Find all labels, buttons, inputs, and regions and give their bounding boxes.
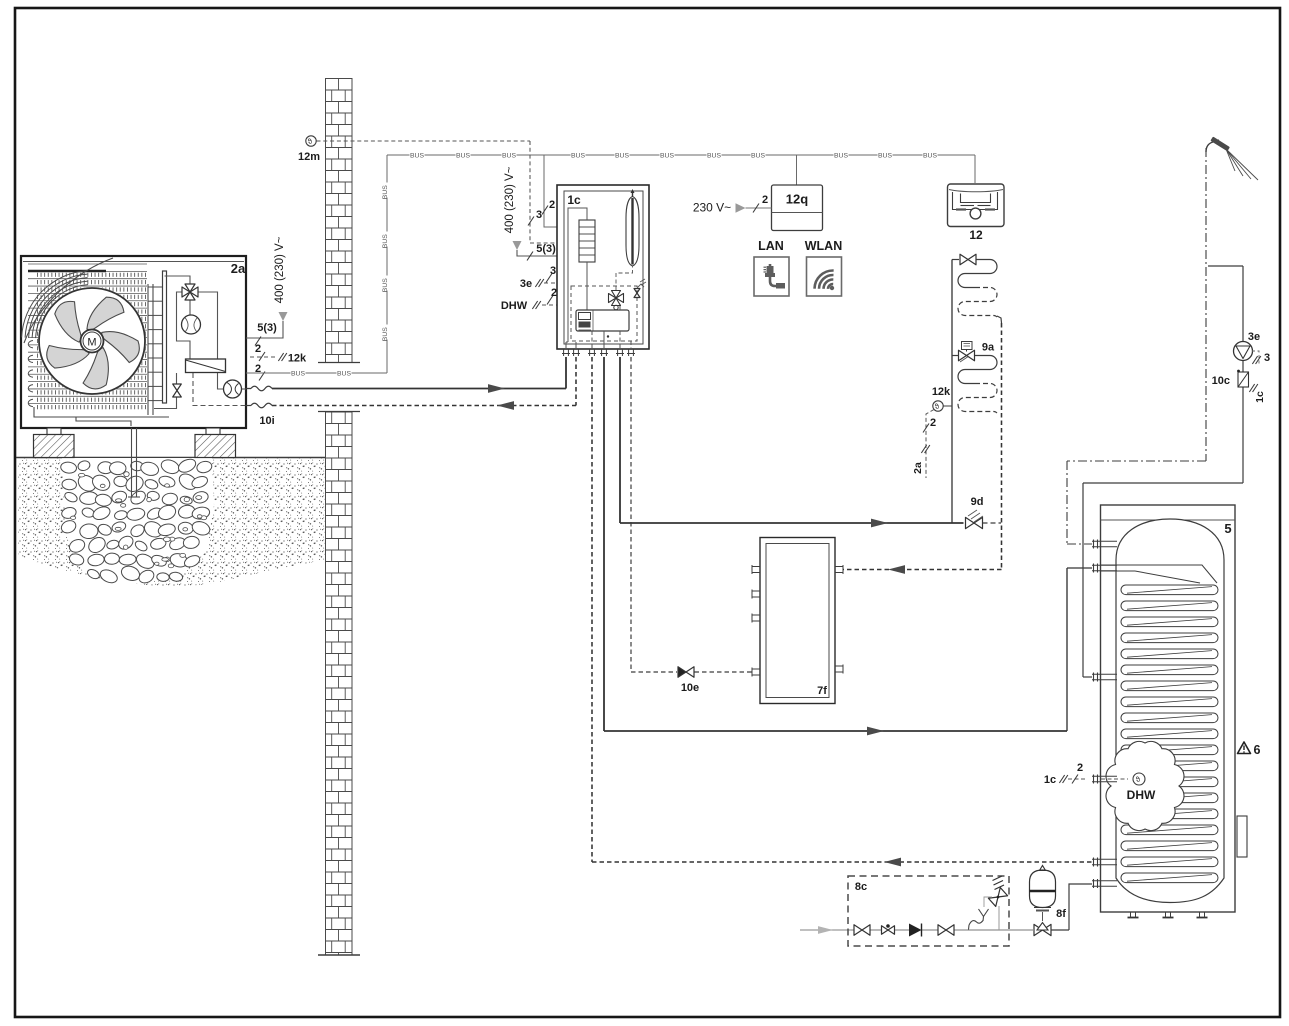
svg-text:LAN: LAN bbox=[758, 239, 784, 253]
fan air-flow arcs bbox=[36, 285, 88, 338]
control assembly dashed box bbox=[571, 286, 637, 341]
evaporator coil fins bbox=[28, 263, 147, 265]
4-way valve bbox=[185, 284, 195, 292]
floor heating coil 1 bbox=[958, 260, 997, 288]
indoor unit 1c outer box bbox=[557, 185, 649, 349]
svg-text:2: 2 bbox=[762, 194, 768, 206]
bus line horizontal lower bbox=[246, 372, 387, 374]
svg-text:BUS: BUS bbox=[571, 152, 585, 159]
internal heating coil bbox=[1121, 585, 1218, 595]
fan blades bbox=[42, 294, 145, 395]
outdoor heat pump unit 2a box bbox=[21, 256, 246, 428]
svg-text:8f: 8f bbox=[1056, 908, 1066, 920]
bus drop to gateway 12q bbox=[796, 155, 798, 185]
svg-text:BUS: BUS bbox=[337, 370, 351, 377]
heater piping bbox=[568, 208, 587, 342]
svg-text:BUS: BUS bbox=[456, 152, 470, 159]
WLAN box bbox=[807, 257, 842, 296]
dhw outlet riser bbox=[1242, 266, 1244, 483]
svg-text:BUS: BUS bbox=[707, 152, 721, 159]
WLAN wifi icon bbox=[828, 284, 833, 289]
LAN plug icon bbox=[770, 264, 782, 286]
zone valve 9d bbox=[966, 517, 975, 528]
bypass valve 10e bbox=[630, 357, 632, 672]
svg-text:2: 2 bbox=[930, 417, 936, 429]
DHW cloud bbox=[1106, 741, 1184, 830]
svg-text:BUS: BUS bbox=[834, 152, 848, 159]
svg-text:400 (230) V~: 400 (230) V~ bbox=[274, 236, 286, 303]
floor heating coil 2 bbox=[952, 355, 959, 357]
evaporator peel curve bbox=[24, 258, 113, 343]
coil left u-bends bbox=[28, 341, 33, 348]
svg-text:2: 2 bbox=[549, 199, 555, 211]
cold water to cylinder bbox=[1051, 929, 1070, 931]
gateway module 12q bbox=[772, 185, 823, 231]
svg-text:12q: 12q bbox=[786, 192, 808, 207]
svg-text:8c: 8c bbox=[855, 881, 867, 893]
svg-text:12k: 12k bbox=[932, 386, 951, 398]
fan ring bbox=[39, 288, 145, 394]
svg-text:400 (230) V~: 400 (230) V~ bbox=[504, 166, 516, 233]
relief drain bbox=[984, 897, 992, 907]
3-way mixing valve indoor bbox=[612, 291, 621, 299]
svg-text:3: 3 bbox=[550, 265, 556, 277]
svg-text:2: 2 bbox=[1077, 762, 1083, 774]
room controller 12 bbox=[948, 184, 1005, 227]
svg-text:BUS: BUS bbox=[382, 185, 389, 199]
svg-text:10e: 10e bbox=[681, 682, 699, 694]
refrigerant pipes bbox=[165, 276, 191, 284]
controller knob bbox=[970, 208, 981, 219]
shut-off valve circuit 1 bbox=[952, 259, 959, 261]
check valve bbox=[909, 924, 922, 937]
svg-text:7f: 7f bbox=[817, 685, 827, 697]
svg-text:1c: 1c bbox=[567, 193, 581, 207]
svg-text:3: 3 bbox=[1264, 352, 1270, 364]
svg-text:DHW: DHW bbox=[1127, 788, 1156, 802]
fan disc bbox=[38, 287, 146, 395]
DHW temperature sensor bbox=[1133, 773, 1145, 785]
cold water inlet bbox=[800, 929, 851, 931]
sensor 12m dashed cable bbox=[317, 140, 531, 142]
fan motor M bbox=[81, 330, 104, 353]
svg-text:3: 3 bbox=[536, 209, 542, 221]
svg-text:12k: 12k bbox=[288, 353, 307, 365]
svg-text:M: M bbox=[87, 337, 96, 349]
svg-text:3e: 3e bbox=[520, 278, 532, 290]
bus line vertical left bbox=[386, 155, 388, 373]
svg-text:5: 5 bbox=[1224, 521, 1231, 536]
brick wall lower segment bbox=[326, 411, 353, 955]
thermostatic valve 9a bbox=[962, 342, 973, 350]
svg-text:BUS: BUS bbox=[502, 152, 516, 159]
expansion vessel indoor bbox=[626, 197, 639, 267]
pump cable labels bbox=[1252, 351, 1259, 364]
vessel connection dashed bbox=[616, 266, 633, 290]
svg-text:9d: 9d bbox=[971, 496, 984, 508]
soil speckle bbox=[18, 458, 325, 586]
outdoor temperature sensor 12m bbox=[306, 136, 316, 146]
svg-text:2: 2 bbox=[551, 287, 557, 299]
indoor unit bottom connection stubs bbox=[563, 349, 565, 356]
svg-text:230 V~: 230 V~ bbox=[693, 201, 731, 215]
heating supply pipe to circuits bbox=[619, 357, 621, 523]
cylinder feet bbox=[1128, 917, 1139, 919]
right side pocket bbox=[1237, 816, 1247, 857]
inner ladder column bbox=[147, 284, 149, 415]
shut-off valve 2 bbox=[938, 925, 946, 936]
pipe through safety group bbox=[851, 929, 1033, 931]
controller display bbox=[953, 192, 998, 210]
svg-text:BUS: BUS bbox=[291, 370, 305, 377]
dhw circulation dash-dot bbox=[1205, 148, 1207, 461]
bus drop to controller 12 bbox=[974, 155, 976, 183]
svg-text:WLAN: WLAN bbox=[805, 239, 843, 253]
expansion vessel 8f bbox=[1030, 870, 1056, 908]
svg-text:3e: 3e bbox=[1248, 331, 1260, 343]
wire to pump dashed bbox=[193, 373, 246, 406]
svg-text:12: 12 bbox=[969, 228, 983, 242]
svg-text:BUS: BUS bbox=[382, 278, 389, 292]
svg-text:5(3): 5(3) bbox=[257, 322, 277, 334]
svg-text:BUS: BUS bbox=[382, 234, 389, 248]
svg-text:1c: 1c bbox=[1044, 774, 1056, 786]
pump module indoor bbox=[576, 310, 629, 331]
cylinder enclosure frame bbox=[1101, 505, 1236, 912]
bottom bracket bbox=[34, 407, 169, 417]
safety valve indoor bbox=[634, 289, 640, 294]
concrete block right bbox=[195, 435, 236, 458]
ground line bbox=[16, 457, 325, 459]
svg-text:10i: 10i bbox=[259, 415, 274, 427]
svg-text:12m: 12m bbox=[298, 151, 320, 163]
heating return trunk dashed bbox=[997, 316, 1002, 323]
dhw return pipe dashed bbox=[591, 357, 593, 862]
svg-text:10c: 10c bbox=[1212, 375, 1230, 387]
safety group 8c dashed box bbox=[848, 876, 1009, 946]
return pipe indoor to outdoor dashed bbox=[246, 405, 251, 407]
power feed to indoor unit bbox=[517, 250, 557, 256]
coil inlet run bbox=[1101, 565, 1217, 583]
separator bar bbox=[163, 271, 167, 403]
svg-text:DHW: DHW bbox=[501, 300, 528, 312]
svg-text:BUS: BUS bbox=[923, 152, 937, 159]
cylinder body bbox=[1116, 519, 1224, 903]
svg-text:BUS: BUS bbox=[878, 152, 892, 159]
svg-text:BUS: BUS bbox=[382, 327, 389, 341]
circulation pump 3e bbox=[1234, 342, 1253, 361]
svg-text:BUS: BUS bbox=[410, 152, 424, 159]
svg-text:2: 2 bbox=[255, 343, 261, 355]
check valve 10c bbox=[1238, 372, 1249, 387]
fill valve under 8f bbox=[1034, 924, 1043, 935]
sensor cable 1c bbox=[1068, 778, 1085, 780]
indoor unit internal pipes bbox=[603, 331, 605, 349]
pump in outdoor unit bbox=[224, 380, 242, 398]
gravel pit with stones bbox=[62, 458, 214, 585]
dhw loading supply pipe bbox=[603, 357, 605, 731]
bus line horizontal upper bbox=[387, 154, 975, 156]
svg-text:2a: 2a bbox=[912, 462, 924, 474]
svg-text:BUS: BUS bbox=[751, 152, 765, 159]
svg-text:1c: 1c bbox=[1254, 391, 1266, 403]
unit feet bbox=[47, 428, 61, 435]
supply pipe outdoor to indoor bbox=[246, 388, 251, 390]
warning symbol 6 bbox=[1238, 742, 1251, 754]
LAN box bbox=[754, 257, 789, 296]
pressure reducing valve bbox=[882, 926, 889, 935]
svg-text:5(3): 5(3) bbox=[536, 243, 556, 255]
expansion valve bbox=[173, 384, 182, 391]
concrete block left bbox=[34, 435, 75, 458]
cylinder connection stubs bbox=[1093, 540, 1095, 549]
svg-text:9a: 9a bbox=[982, 342, 995, 354]
safety relief valve bbox=[988, 888, 1007, 907]
condensate drain pipe bbox=[131, 428, 133, 497]
svg-text:6: 6 bbox=[1254, 743, 1261, 757]
shut-off valve 1 bbox=[854, 925, 862, 936]
compressor bbox=[182, 315, 201, 334]
buffer stubs bbox=[752, 566, 760, 568]
svg-text:2a: 2a bbox=[231, 261, 246, 276]
buffer cylinder 7f bbox=[760, 538, 835, 704]
svg-text:BUS: BUS bbox=[615, 152, 629, 159]
brick wall upper segment bbox=[326, 78, 353, 362]
power feed line 5(3) bbox=[246, 321, 283, 338]
electric heater bbox=[579, 220, 595, 262]
plate heat exchanger bbox=[186, 359, 226, 373]
shower head bbox=[1206, 140, 1219, 152]
bus wire to indoor unit bbox=[544, 155, 557, 227]
svg-text:BUS: BUS bbox=[660, 152, 674, 159]
